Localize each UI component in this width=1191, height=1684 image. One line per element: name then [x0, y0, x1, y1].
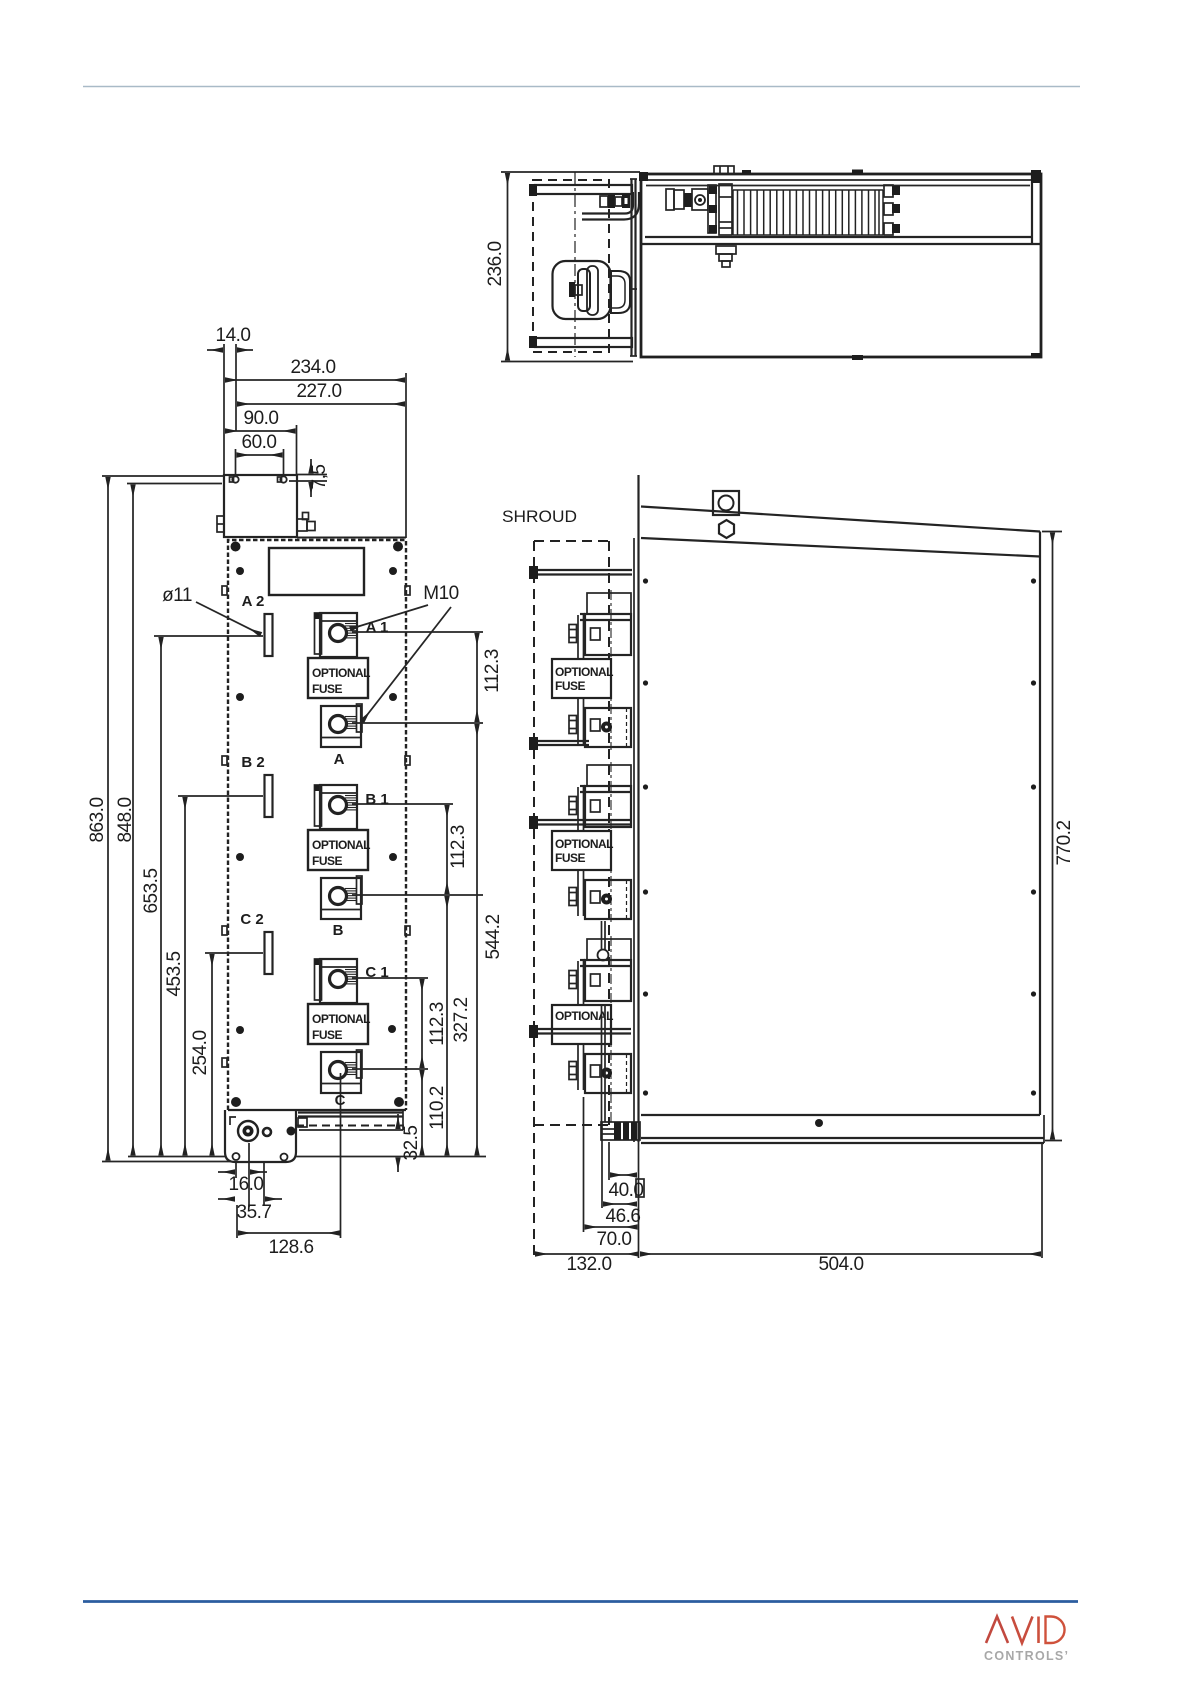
- svg-text:A: A: [334, 751, 345, 768]
- svg-text:SHROUD: SHROUD: [502, 507, 577, 526]
- svg-text:7,5: 7,5: [309, 465, 330, 490]
- svg-text:FUSE: FUSE: [312, 682, 343, 696]
- svg-text:112.3: 112.3: [448, 825, 469, 869]
- svg-text:C: C: [335, 1092, 346, 1109]
- svg-text:128.6: 128.6: [268, 1237, 313, 1258]
- svg-text:653.5: 653.5: [141, 868, 162, 913]
- svg-text:770.2: 770.2: [1054, 820, 1075, 865]
- svg-text:CONTROLS’: CONTROLS’: [984, 1649, 1069, 1663]
- svg-text:848.0: 848.0: [115, 797, 136, 842]
- svg-text:OPTIONAL: OPTIONAL: [312, 666, 370, 680]
- svg-text:32.5: 32.5: [401, 1126, 422, 1161]
- svg-text:35.7: 35.7: [237, 1202, 272, 1223]
- svg-text:110.2: 110.2: [427, 1086, 448, 1130]
- svg-text:A 2: A 2: [242, 593, 265, 610]
- svg-text:234.0: 234.0: [290, 357, 335, 378]
- svg-text:OPTIONAL: OPTIONAL: [555, 665, 613, 679]
- svg-text:112.3: 112.3: [482, 649, 503, 693]
- svg-text:14.0: 14.0: [216, 325, 251, 346]
- svg-text:544.2: 544.2: [483, 914, 504, 959]
- svg-text:70.0: 70.0: [597, 1229, 632, 1250]
- svg-text:40.0: 40.0: [609, 1180, 644, 1201]
- svg-text:ø11: ø11: [162, 585, 192, 606]
- svg-text:46.6: 46.6: [606, 1206, 641, 1227]
- svg-text:B: B: [333, 922, 344, 939]
- svg-text:B 1: B 1: [365, 791, 388, 808]
- svg-text:327.2: 327.2: [451, 997, 472, 1042]
- svg-text:90.0: 90.0: [244, 408, 279, 429]
- svg-text:863.0: 863.0: [87, 797, 108, 842]
- svg-text:453.5: 453.5: [164, 951, 185, 996]
- svg-text:OPTIONAL: OPTIONAL: [555, 837, 613, 851]
- svg-text:C 2: C 2: [240, 911, 263, 928]
- svg-text:112.3: 112.3: [427, 1002, 448, 1046]
- svg-text:60.0: 60.0: [242, 432, 277, 453]
- svg-text:B 2: B 2: [241, 754, 264, 771]
- svg-text:M10: M10: [423, 583, 458, 604]
- svg-text:FUSE: FUSE: [555, 851, 586, 865]
- svg-text:227.0: 227.0: [296, 381, 341, 402]
- svg-text:504.0: 504.0: [818, 1254, 863, 1275]
- svg-text:FUSE: FUSE: [555, 679, 586, 693]
- svg-text:16.0: 16.0: [229, 1174, 264, 1195]
- svg-text:236.0: 236.0: [485, 241, 506, 286]
- svg-text:254.0: 254.0: [190, 1030, 211, 1075]
- svg-text:132.0: 132.0: [566, 1254, 611, 1275]
- svg-text:C 1: C 1: [365, 964, 388, 981]
- svg-text:A 1: A 1: [366, 619, 389, 636]
